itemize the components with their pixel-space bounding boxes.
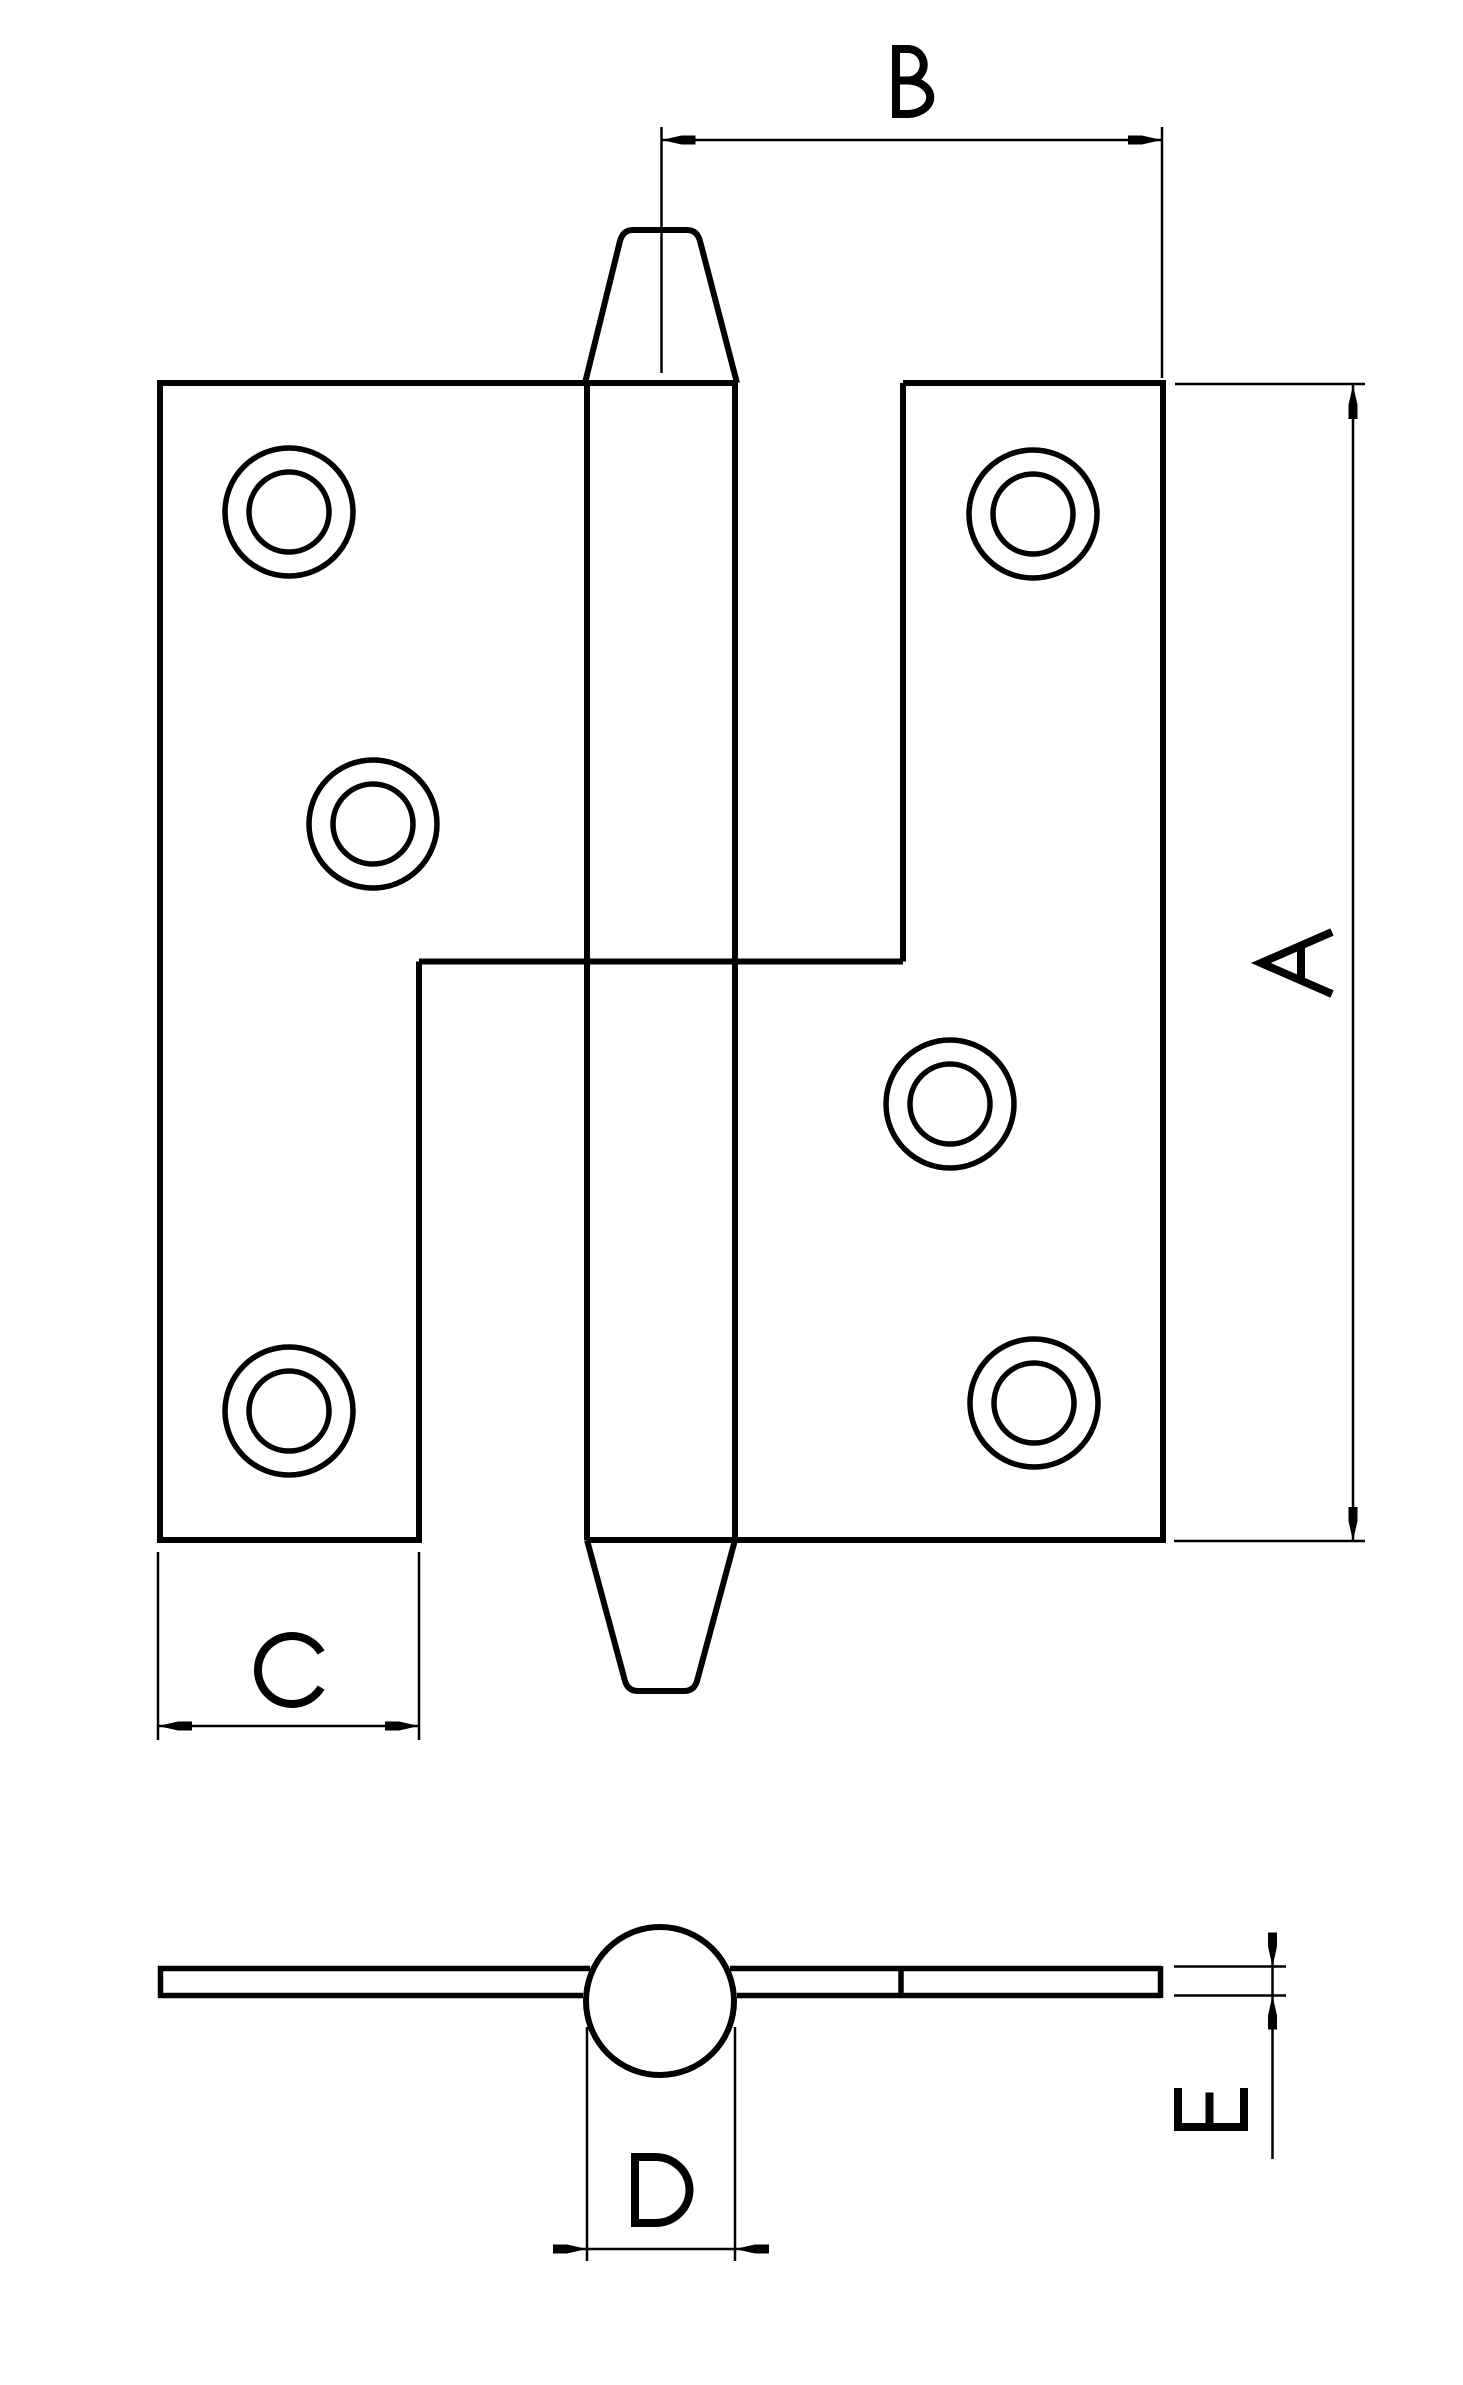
E extension line top xyxy=(1174,1965,1286,1968)
label D xyxy=(631,2153,690,2227)
A arrow top xyxy=(1349,385,1358,419)
D extension line right xyxy=(734,2027,737,2261)
right leaf top edge xyxy=(903,380,1163,386)
top view right strip bottom edge xyxy=(737,1993,1161,1999)
label E (rotated) xyxy=(1174,2088,1248,2131)
top view right strip top edge xyxy=(730,1966,1161,1972)
top view leaf divider xyxy=(898,1966,904,1998)
label C xyxy=(258,1636,321,1704)
A arrow bottom xyxy=(1349,1507,1358,1541)
D extension line left xyxy=(586,2027,589,2261)
D dimension line xyxy=(553,2248,769,2251)
C arrow left xyxy=(158,1722,192,1731)
top view right strip right end xyxy=(1158,1966,1164,1998)
screw hole R2 xyxy=(886,1040,1014,1168)
pin column right line xyxy=(732,383,738,1540)
C extension line right xyxy=(418,1552,421,1740)
top view knuckle circle xyxy=(586,1927,734,2075)
C arrow right xyxy=(385,1722,419,1731)
B extension line left (pin centre) xyxy=(660,127,663,373)
E arrow bottom xyxy=(1268,1996,1277,2030)
A extension line top xyxy=(1175,383,1365,386)
D arrow left xyxy=(553,2245,587,2254)
pin top cap xyxy=(585,230,737,383)
B extension line right xyxy=(1161,127,1164,378)
A dimension line xyxy=(1352,385,1355,1541)
screw hole L1 xyxy=(225,448,353,576)
step line between leaves xyxy=(419,959,903,965)
left leaf bottom edge xyxy=(157,1537,419,1543)
pin bottom tip xyxy=(587,1540,735,1691)
B arrow right xyxy=(1128,136,1162,145)
E arrow top xyxy=(1268,1933,1277,1967)
D arrow right xyxy=(735,2245,769,2254)
right leaf right edge xyxy=(1160,380,1166,1543)
A extension line bottom xyxy=(1174,1540,1365,1543)
B arrow left xyxy=(662,136,696,145)
E dimension line xyxy=(1271,1935,1274,2159)
left leaf notch vertical edge xyxy=(416,962,422,1544)
C dimension line xyxy=(158,1725,419,1728)
screw hole L2 xyxy=(309,760,437,888)
screw hole L3 xyxy=(225,1347,353,1475)
right leaf bottom edge xyxy=(587,1537,1163,1543)
top view left strip bottom edge xyxy=(158,1993,583,1999)
E extension line bottom xyxy=(1174,1994,1286,1997)
B dimension line xyxy=(662,139,1163,142)
top view left strip left end xyxy=(158,1966,164,1998)
screw hole R3 xyxy=(970,1339,1098,1467)
right leaf left edge xyxy=(900,383,906,962)
left leaf left edge xyxy=(157,380,163,1543)
C extension line left xyxy=(157,1552,160,1740)
label A (rotated) xyxy=(1261,932,1332,994)
screw hole R1 xyxy=(969,450,1097,578)
pin column left line xyxy=(584,383,590,1540)
left leaf top edge xyxy=(158,380,738,386)
top view left strip top edge xyxy=(158,1966,590,1972)
label B xyxy=(896,45,930,118)
